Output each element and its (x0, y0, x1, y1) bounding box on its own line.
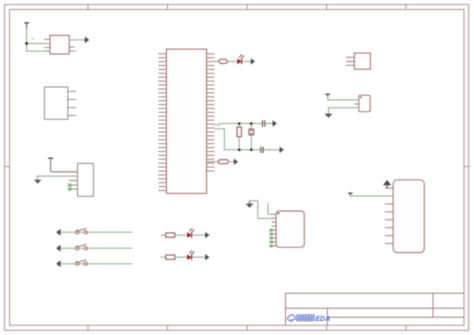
IC U1 (50, 35, 69, 54)
wire U4 to R3 (207, 161, 219, 163)
wire U3 pin1 (50, 158, 52, 172)
wire C1 to net flag (265, 123, 273, 125)
wire U7 pin2 to ground (250, 201, 277, 219)
LED D3 (187, 250, 194, 260)
U3 pins (69, 181, 78, 190)
power symbol above U3 (48, 157, 53, 159)
title block (286, 293, 465, 325)
wire stub to R4 (161, 234, 166, 236)
wire D2 to net flag (192, 234, 206, 236)
IC U3 gray (78, 163, 94, 196)
U1 pins (44, 39, 74, 51)
switch S1 (56, 228, 132, 235)
crystal X1 (250, 124, 252, 130)
wire U1 pin to junction (27, 42, 50, 44)
U1 label dash (31, 38, 33, 40)
connector J1 (393, 180, 424, 253)
resistor R2 vertical (238, 124, 240, 128)
wire U3 pin2 to ground (37, 176, 77, 180)
switch S3 (56, 260, 132, 267)
resistor R4 (166, 233, 175, 237)
U2 pins (68, 91, 77, 115)
resistor R5 (166, 255, 175, 259)
wire U4 pin to top rail (215, 124, 263, 125)
resistor R1 (219, 59, 227, 63)
net flag arrow up at J1 pin1 (383, 180, 391, 188)
no-connect X marks U7 (270, 229, 273, 248)
U6 pin2 stub (354, 103, 359, 105)
wire U6 pin1 (328, 97, 359, 100)
wire R4 to D2 (175, 234, 187, 236)
wire U4 to R1 (215, 60, 220, 62)
U5 pins (346, 57, 354, 65)
wire U6 pin3 to ground (329, 108, 359, 114)
frame zone ticks top (88, 5, 406, 10)
net flag arrow right of U1 (85, 37, 89, 44)
switch S2 (56, 244, 132, 251)
wire R1 to D1 (227, 60, 237, 62)
frame zone tick left (5, 166, 10, 168)
wire R5 to D3 (175, 256, 187, 258)
frame zone ticks bottom (88, 325, 406, 330)
junction dots crystal rails (238, 122, 253, 151)
U7 pin1 marker dot (278, 212, 280, 214)
IC U5 (354, 53, 370, 69)
capacitor C2 (261, 147, 263, 153)
net flag arrow after D3 (205, 254, 209, 260)
resistor R3 (218, 160, 228, 164)
U6 pin1 marker dot (360, 97, 362, 99)
wire C2 to net flag (263, 149, 280, 151)
power symbol VCC top-left (24, 23, 29, 29)
EDA logo text 嘉立创EDA (297, 315, 302, 321)
EDA logo cloud icon (287, 315, 295, 322)
wire stub to R5 (161, 256, 166, 258)
net flag arrow after D2 (205, 232, 209, 238)
wire U4 pin to bottom rail (215, 129, 261, 150)
ground symbol below U6 wire (325, 114, 333, 118)
J1 pins (385, 188, 393, 243)
net flag arrow after C2 (280, 147, 284, 153)
wire vertical from VCC (27, 29, 50, 52)
IC U7 (276, 211, 304, 247)
wire U1 output (69, 39, 85, 41)
no-connect X marks U3 (68, 183, 71, 190)
U4 left pins (158, 54, 166, 191)
wire R3 to net flag (228, 161, 234, 163)
ground symbol left of U7 (246, 201, 254, 208)
power symbol T left of J1 wire (348, 193, 353, 196)
IC U4 main MCU (166, 49, 206, 193)
net flag arrow after C1 (273, 120, 277, 126)
net flag arrow after D1 (251, 58, 255, 64)
capacitor C1 (263, 120, 265, 126)
wire J1 pin2 long (350, 195, 393, 197)
LED D2 (187, 228, 194, 238)
U4 right pins (207, 54, 215, 171)
IC U6 (359, 95, 370, 112)
wire D3 to net flag (192, 256, 206, 258)
power symbol above U6 wire (325, 94, 330, 96)
ground symbol left of U3 (34, 180, 42, 184)
svg-text:EDA: EDA (315, 316, 330, 323)
U7 pins (272, 214, 277, 246)
junction dot (25, 42, 28, 45)
wire D1 to net flag (242, 60, 251, 62)
wire U7 pin1 vertical (268, 203, 276, 214)
LED D1 (237, 54, 244, 64)
net flag arrow after R3 (234, 159, 238, 165)
IC U2 gray (44, 87, 67, 119)
frame zone tick right (464, 166, 469, 168)
